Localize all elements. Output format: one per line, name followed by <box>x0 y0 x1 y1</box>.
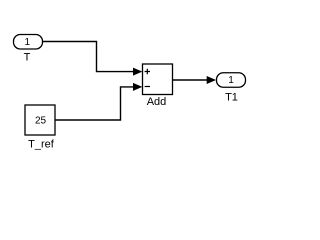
svg-text:T_ref: T_ref <box>28 139 55 151</box>
svg-text:25: 25 <box>35 116 47 127</box>
outport block T1 (stadium with port number 1) <box>217 73 246 88</box>
wire from Add output to outport T1 <box>173 76 217 84</box>
wire from constant T_ref to Add minus input <box>55 83 142 120</box>
svg-text:1: 1 <box>25 37 31 48</box>
constant block T_ref (value 25) <box>25 105 55 135</box>
svg-text:Add: Add <box>147 96 167 108</box>
svg-text:1: 1 <box>228 75 234 86</box>
sum block Add <box>143 64 173 95</box>
svg-text:T: T <box>24 52 31 64</box>
svg-text:T1: T1 <box>225 92 238 104</box>
wire from inport T to Add plus input <box>43 42 143 76</box>
inport block T (stadium with port number 1) <box>14 35 43 50</box>
